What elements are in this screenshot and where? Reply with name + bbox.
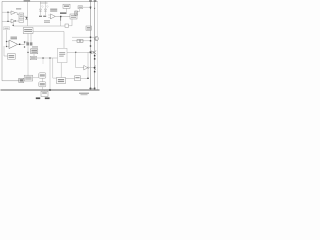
wire drop x43 — [42, 59, 44, 64]
caption dash right — [45, 97, 50, 99]
junction bus A y40.8 — [90, 40, 91, 41]
label mark top border right A — [89, 0, 92, 2]
transistor Q3 arrow — [94, 66, 96, 68]
wire from top border down at x=27.4 — [26, 1, 28, 26]
wire tap down to buffer D4 — [75, 52, 77, 67]
junction U1 input — [7, 12, 8, 13]
transistor Q2 — [30, 42, 33, 45]
wire node down to y26 — [60, 16, 62, 20]
wire M1 leg a — [27, 34, 29, 43]
box C1 — [57, 78, 66, 84]
left border wire — [2, 1, 19, 80]
junction U2 input — [7, 21, 8, 22]
wire long horizontal y26 — [13, 25, 65, 27]
wire M2 to M3 — [33, 54, 35, 57]
junction bus B y58.8 — [94, 58, 96, 60]
label on top border left — [24, 0, 31, 2]
wire U4 input b — [7, 46, 10, 48]
junction on bus A at y7 — [90, 7, 91, 8]
label above mixer M2 — [32, 46, 38, 47]
wire U2 out — [15, 20, 19, 22]
mixer box M2 — [31, 49, 38, 54]
wire A4 to bus A — [83, 6, 91, 8]
junction x50 y90 — [49, 89, 51, 91]
box A4 dashed — [78, 6, 83, 9]
wire stub U2 input — [2, 20, 11, 22]
wire input column x6.5 — [6, 30, 8, 47]
wire title box to border — [43, 90, 45, 91]
wire U2 tap down to y26 — [12, 21, 14, 26]
bus B vertical — [94, 1, 96, 90]
wire M1 leg b — [30, 34, 32, 43]
wire buffer out — [89, 67, 94, 69]
caption dash left — [36, 97, 40, 99]
wire M1 right long to IC — [33, 32, 64, 49]
wire y40.8 — [72, 40, 91, 42]
junction U4 out — [19, 44, 20, 45]
wire M3 to IC U5 — [37, 57, 58, 59]
label above op-amp U4 — [11, 37, 18, 38]
junction bus B y71.6 — [94, 71, 96, 73]
label value text — [44, 20, 50, 21]
junction bus A y46 — [90, 45, 91, 46]
bus A vertical — [90, 1, 92, 90]
diode D3 triangle — [91, 51, 93, 54]
label mark top border right B — [94, 0, 97, 2]
wire U3 input b — [48, 17, 50, 19]
wire B3 to border — [41, 87, 43, 90]
wire U3 input a — [48, 14, 50, 16]
box A3 — [70, 14, 77, 19]
buffer D4 — [84, 65, 88, 70]
wire A2 down — [66, 8, 68, 14]
junction x24.5 y42 — [24, 41, 25, 42]
junction bus B y55.6 — [94, 55, 96, 57]
wire x50 vertical — [49, 58, 51, 90]
photo-diode D2 wire — [45, 1, 47, 15]
diode CR1 on riser — [25, 17, 27, 19]
op-amp U3 — [50, 14, 55, 19]
box M1 — [23, 28, 33, 34]
junction x6.5 y46.5 — [6, 46, 7, 47]
arrow tick bus A — [90, 8, 92, 9]
junction x75.7 y52.3 — [75, 52, 76, 53]
resistor R4 on wire y26 — [65, 24, 69, 27]
transistor Q4 — [94, 37, 98, 41]
junction x28 y52.4 — [27, 52, 28, 53]
box A2 text — [64, 5, 69, 7]
diode D3 bubble — [89, 51, 91, 53]
bus terminations at border — [90, 88, 92, 90]
top border line — [2, 0, 98, 2]
junction x6.5 y41.5 — [6, 41, 7, 42]
wire B2 to B3 — [41, 78, 43, 82]
op-amp U2 — [11, 19, 15, 23]
box C2 — [75, 76, 81, 81]
wire y37.2 — [72, 36, 94, 38]
junction U2 apex — [15, 20, 16, 21]
resistor R3 — [80, 40, 83, 43]
wire box A1 output — [24, 15, 28, 17]
wire IC right to diode D3 — [67, 51, 89, 53]
resistor R2 — [77, 40, 80, 43]
input bus wire left — [7, 12, 9, 22]
photo-diode D1 symbol — [39, 9, 41, 11]
IC U5 block — [57, 48, 67, 62]
wire C1 to C2 — [66, 77, 75, 79]
label above wire — [60, 12, 66, 14]
box A1 — [19, 13, 24, 22]
junction corner x13.2 y25.4 — [13, 25, 14, 26]
box A1 text — [20, 14, 23, 15]
right border line — [97, 1, 99, 90]
box R1 — [86, 26, 91, 30]
gain controller label — [50, 9, 57, 10]
arrow tick bus B — [94, 8, 96, 9]
wire IC bottom to box C1 — [60, 63, 62, 78]
junction x24.5 y47 — [24, 46, 25, 47]
IC U5 text — [59, 52, 65, 53]
wire into box T1 — [4, 46, 8, 56]
box A3 text — [71, 15, 76, 16]
wire column x28 down — [27, 46, 29, 76]
junction bus A y37.2 — [90, 37, 91, 38]
bottom border line — [1, 89, 100, 91]
box M3 — [30, 56, 36, 59]
caption text right side — [79, 93, 89, 94]
wire U3 output — [55, 15, 70, 17]
junction node U3 out — [60, 16, 61, 17]
op-amp U1 — [11, 11, 15, 15]
title block box — [41, 91, 48, 96]
transistor Q1 — [26, 42, 29, 45]
label under diodes — [39, 16, 42, 17]
junction x88 y78.3 — [87, 78, 88, 79]
label on top border mid — [40, 2, 48, 3]
junction y58 x43 — [42, 57, 43, 58]
box A2 — [63, 4, 70, 8]
wire A4 down to X1 — [78, 9, 80, 12]
photo-diode D1 wire — [40, 1, 42, 15]
wire U4 input a — [7, 41, 10, 43]
wire U4 output — [18, 43, 25, 45]
transistor arrow on bus at D3 — [94, 51, 96, 53]
wire x52.8 vertical — [53, 58, 57, 78]
wire stub U1 input — [2, 11, 11, 13]
box B3 — [39, 82, 46, 87]
box B1 — [24, 75, 32, 81]
box M1 text — [24, 29, 32, 30]
wire C2 right to riser — [81, 77, 89, 79]
box B2 — [39, 73, 46, 78]
connector K1 — [19, 78, 24, 82]
box ML faint — [4, 27, 10, 30]
riser x88 — [87, 52, 89, 78]
junction x50 y58 — [49, 57, 50, 58]
wire corner to mixer column — [25, 42, 29, 44]
wire into buffer D4 — [76, 67, 84, 69]
wire U1 out to box A1 — [15, 13, 19, 15]
node label above box A1 — [16, 8, 21, 9]
wire B1 to B2 — [33, 77, 39, 79]
junction bus A y52.3 — [90, 52, 91, 53]
box T1 — [8, 54, 16, 60]
wire R4 to corner — [69, 19, 73, 26]
op-amp U4 — [9, 40, 18, 49]
crystal X1 — [75, 11, 78, 15]
photo-diode D2 symbol — [44, 9, 46, 11]
